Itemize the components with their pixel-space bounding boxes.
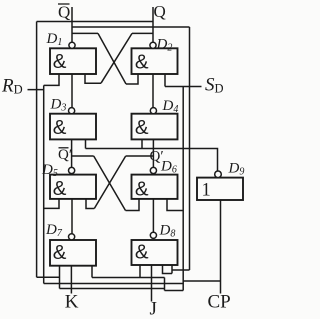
wire RD bottom rail [44,283,184,285]
svg-text:SD: SD [205,75,224,96]
svg-text:1: 1 [202,181,211,201]
svg-text:&: & [135,50,149,73]
wire Q feedback left vertical [36,22,38,278]
nand gate D4 box [132,114,178,140]
wire CP rail jog bottom [165,290,184,292]
wire cross diagonal Q to D1 input [101,33,132,83]
wire D4 left input stub [141,139,143,148]
wire CP vertical to D9 input [220,200,222,294]
wire D3 right input stub [85,139,87,148]
nand gate D1 box [50,48,96,74]
output bubble D5 [69,167,75,173]
wire Qbar feedback right vertical [189,27,191,270]
svg-text:&: & [53,116,67,139]
svg-text:D1: D1 [46,31,63,48]
wire Q-prime cross horizontal [126,155,154,157]
nand gate D7 box [50,240,96,266]
svg-text:&: & [135,241,149,264]
wire SD entry horizontal [165,86,202,88]
svg-text:Q′: Q′ [58,147,72,163]
svg-text:J: J [150,299,157,319]
wire Qbar feedback to D8 connector [172,269,190,271]
output bubble D2 [150,42,156,48]
svg-text:D2: D2 [156,37,173,54]
svg-text:D3: D3 [50,97,67,114]
svg-text:&: & [135,116,149,139]
wire D7 left input stub [59,266,61,289]
wire J riser [151,265,153,302]
wire D8 left input stub [139,265,141,278]
wire CPbar rail from D9 output [86,149,218,172]
output bubble D4 [150,108,156,114]
wire master cross diagonal Qbar-prime to D6 input [94,156,126,211]
svg-text:&: & [53,177,67,200]
wire D8 right input stub zigzag [163,265,173,274]
svg-text:Q: Q [58,3,70,22]
svg-text:D8: D8 [159,223,176,240]
wire CP branch horizontal [183,280,220,282]
wire CP rail jog down [164,278,166,291]
svg-text:RD: RD [1,76,23,97]
wire K riser [70,266,72,294]
wire bottom rail c [60,288,165,290]
wire Q feedback to D7 connector [37,276,60,278]
svg-text:K: K [65,292,79,313]
wire SD vertical rail [182,87,184,291]
node Q-prime wire D6 output to D4 middle input [152,139,154,167]
wire Qbar feedback horizontal [72,26,190,28]
node Qbar output wire [71,7,73,42]
overbar of Qbar-prime [59,147,69,149]
nand gate D2 box [132,48,178,74]
svg-text:D7: D7 [45,222,63,239]
output bubble D1 [69,42,75,48]
wire D6 right input stub to SD rail [167,199,183,211]
svg-text:&: & [135,177,149,200]
inverter D9 box [197,178,243,200]
wire D5 left input stub to RD rail [44,199,59,209]
wire Q to cross coupling horizontal [132,32,153,34]
wire D2 left input stub [126,74,138,84]
nand gate D3 box [50,114,96,140]
wire cross diagonal Qbar to D2 input [98,33,126,84]
svg-text:D5: D5 [41,162,58,179]
nand gate D6 box [132,175,178,199]
nand gate D5 box [50,175,96,199]
output bubble D8 [150,232,156,238]
svg-text:D4: D4 [162,98,179,115]
wire D5 right input stub [86,199,94,209]
wire Qbar to cross coupling horizontal [72,32,98,34]
wire Qbar-prime cross horizontal [72,155,94,157]
nand gate D8 box [132,240,178,265]
wire D1 left input stub to RD rail [44,74,59,85]
output bubble D7 [69,234,75,240]
output bubble D3 [69,108,75,114]
wire D7 right input stub [91,266,93,278]
wire D8 output to D6 middle input [152,199,154,232]
output bubble D6 [150,167,156,173]
wire D2 right input stub [164,74,166,87]
wire master cross diagonal Q-prime to D5 input [94,156,125,209]
wire D6 left input stub [126,199,140,211]
output bubble D9 [215,171,222,178]
svg-text:Q′: Q′ [150,149,164,165]
overbar of Qbar [58,3,70,5]
svg-text:CP: CP [208,292,231,313]
svg-text:&: & [53,241,67,264]
svg-text:Q: Q [154,2,166,21]
svg-text:&: & [53,50,67,73]
wire D8 fourth input stub [171,265,173,274]
wire D4 output to D2 middle input [152,74,154,108]
svg-text:D9: D9 [228,161,245,178]
wire D7 output to D5 middle input [71,199,73,234]
node Q output wire [152,7,154,42]
wire D1 right input stub [85,74,101,83]
wire CP rail lower left [92,277,165,279]
node Qbar-prime wire D5 output to D3 middle input [71,139,73,167]
wire RD rail vertical [43,85,45,283]
wire D3 output to D1 middle input [71,74,73,108]
wire Q feedback top horizontal [37,21,153,23]
wire RD entry [28,89,44,91]
